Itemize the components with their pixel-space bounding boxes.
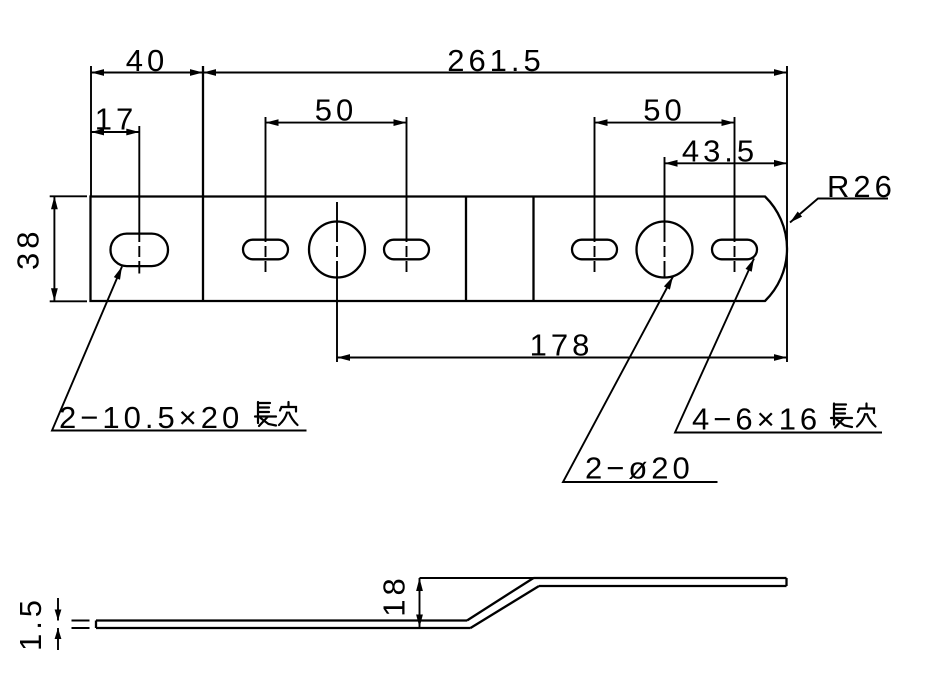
slot hole 6x16 (mid-right) — [384, 240, 429, 260]
plate outline (top view) — [91, 197, 788, 302]
slot hole 10.5x20 left — [111, 234, 169, 267]
dimension 261.5 — [203, 72, 787, 74]
bend line (x=533.5) — [532, 197, 534, 301]
svg-text:40: 40 — [126, 43, 168, 78]
extension stubs for 1.5 — [72, 620, 90, 622]
centerline slot mid-right (x=406.5) — [406, 117, 408, 272]
centerline circle right (x=664.5) — [664, 157, 666, 278]
centerline slot far-right (x=734.5) — [734, 117, 736, 272]
svg-text:2−10.5×20: 2−10.5×20 — [59, 400, 243, 435]
centerline slot mid-left (x=265.5) — [265, 117, 267, 272]
side view upper flat top — [534, 577, 787, 579]
svg-text:261.5: 261.5 — [447, 43, 545, 78]
svg-text:38: 38 — [11, 228, 46, 270]
extension line left edge (x=91) — [90, 66, 92, 197]
bend line (x=466) — [465, 197, 467, 301]
centerline slot right-left (x=594.5) — [594, 117, 596, 272]
dimension 40 — [91, 72, 203, 74]
dimension 18 extension — [420, 577, 535, 579]
centerline slot left (x=139.3) — [138, 126, 140, 274]
kanji nagaana (long hole) label 2 — [831, 404, 852, 428]
svg-text:2−ø20: 2−ø20 — [585, 451, 694, 486]
svg-text:1.5: 1.5 — [13, 596, 48, 651]
leader + label 4-6x16 slot — [675, 259, 882, 433]
dimension 17 — [91, 131, 139, 133]
slot hole 6x16 (right group left) — [572, 240, 617, 260]
slot hole 6x16 (mid-left) — [243, 240, 288, 260]
svg-text:R26: R26 — [827, 169, 896, 204]
svg-text:17: 17 — [95, 102, 137, 137]
side view left end cap — [95, 621, 97, 629]
svg-text:50: 50 — [643, 93, 685, 128]
leader + label 2-10.5x20 slot — [52, 267, 307, 431]
dimension 43.5 — [665, 162, 788, 164]
svg-text:43.5: 43.5 — [682, 134, 758, 169]
kanji nagaana (long hole) label 1 — [255, 402, 276, 426]
hole circle ø20 (right) — [637, 222, 693, 278]
dimension 38 — [53, 196, 55, 301]
leader R26 — [790, 199, 888, 223]
dimension 50 (right group) — [595, 122, 735, 124]
bend line left (x=203 feature/extension line) — [202, 66, 204, 301]
side view right end cap — [785, 578, 787, 586]
dimension 178 — [337, 357, 787, 359]
svg-text:4−6×16: 4−6×16 — [692, 402, 821, 437]
hole circle ø20 (middle) — [309, 222, 365, 278]
centerline circle middle (x=337) — [336, 202, 338, 362]
dimension 38 extension lines — [50, 195, 87, 197]
leader + label 2-dia20 — [563, 277, 718, 483]
side view upper flat bottom — [539, 585, 787, 587]
svg-text:178: 178 — [530, 328, 594, 363]
svg-text:18: 18 — [377, 574, 412, 616]
side view lower flat bottom — [96, 627, 471, 629]
side view bend diagonal bottom — [471, 586, 540, 628]
dimension 50 (left group) — [266, 122, 407, 124]
dimension 18 — [419, 578, 421, 628]
svg-text:50: 50 — [315, 93, 357, 128]
slot hole 6x16 (far right) — [712, 240, 757, 260]
dimension 1.5 — [57, 598, 59, 621]
side view bend diagonal top — [467, 578, 534, 621]
side view lower flat top — [96, 619, 467, 621]
extension line right end (x=787) — [786, 66, 788, 362]
